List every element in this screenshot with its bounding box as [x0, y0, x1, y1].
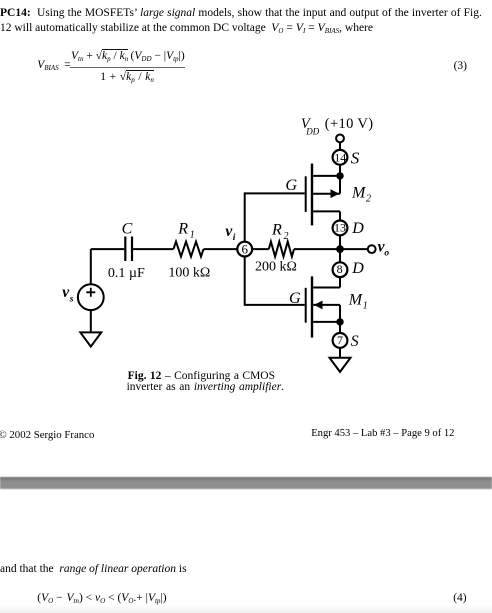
- svg-text:7: 7: [337, 333, 343, 347]
- svg-text:i: i: [233, 233, 236, 243]
- svg-text:1: 1: [363, 300, 368, 311]
- svg-text:200 kΩ: 200 kΩ: [255, 259, 297, 274]
- svg-text:1: 1: [190, 230, 195, 241]
- svg-text:6: 6: [241, 242, 248, 257]
- svg-text:R: R: [177, 220, 188, 237]
- svg-text:8: 8: [337, 262, 343, 276]
- svg-text:S: S: [351, 149, 360, 168]
- svg-text:o: o: [384, 249, 389, 259]
- svg-text:2: 2: [366, 193, 371, 204]
- svg-text:13: 13: [334, 221, 346, 235]
- svg-text:G: G: [289, 288, 301, 307]
- svg-text:M: M: [348, 292, 364, 309]
- svg-text:2: 2: [284, 231, 289, 242]
- svg-text:100 kΩ: 100 kΩ: [168, 266, 210, 281]
- svg-text:DD: DD: [305, 126, 319, 136]
- svg-text:(+10 V): (+10 V): [325, 116, 374, 132]
- svg-text:S: S: [351, 333, 359, 350]
- svg-text:M: M: [351, 185, 367, 202]
- svg-text:14: 14: [334, 151, 346, 165]
- svg-text:D: D: [351, 260, 364, 277]
- svg-text:0.1 µF: 0.1 µF: [108, 266, 145, 281]
- svg-text:G: G: [285, 175, 297, 194]
- svg-text:C: C: [122, 220, 133, 237]
- svg-text:s: s: [69, 294, 74, 304]
- svg-text:D: D: [351, 220, 364, 237]
- svg-text:R: R: [271, 222, 282, 239]
